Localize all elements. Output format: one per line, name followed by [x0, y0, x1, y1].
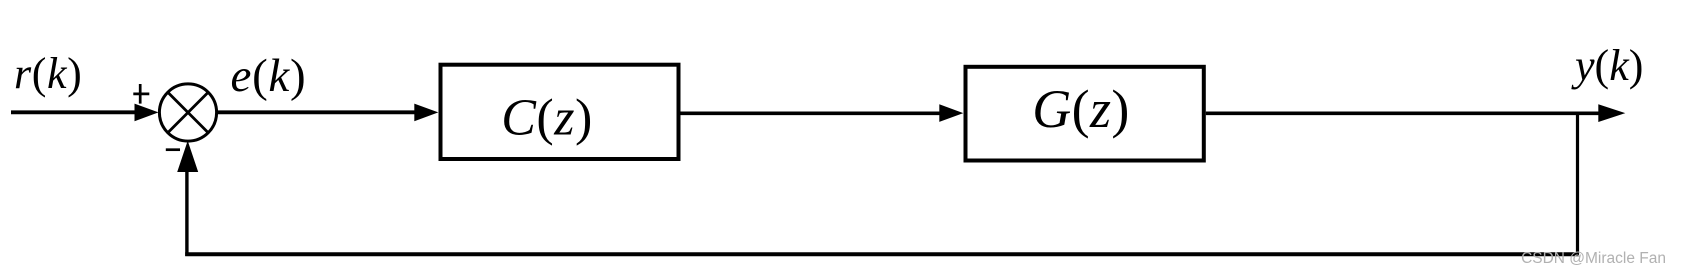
wire C(z) to G(z) [681, 112, 942, 116]
summing junction circle [159, 84, 216, 141]
plus sign [133, 84, 149, 104]
arrowhead up into summing junction [177, 141, 198, 172]
svg-text:y(k): y(k) [1571, 41, 1643, 90]
feedback wire down from output node [1576, 113, 1579, 254]
arrowhead into G(z) [939, 104, 963, 122]
svg-text:G(z): G(z) [1032, 79, 1130, 139]
wire summing junction to C(z) [217, 110, 416, 114]
svg-text:CSDN @Miracle Fan: CSDN @Miracle Fan [1521, 250, 1666, 267]
wire input to summing junction [11, 110, 136, 114]
feedback wire up to summing junction [185, 170, 188, 256]
arrowhead at output [1598, 104, 1625, 122]
feedback wire bottom [185, 252, 1579, 256]
svg-text:r(k): r(k) [14, 49, 82, 98]
cross X inside summing junction [168, 92, 208, 132]
arrowhead into C(z) [414, 104, 438, 122]
block G(z) [966, 67, 1204, 161]
arrowhead into summing junction [135, 104, 159, 122]
wire G(z) to output [1206, 112, 1600, 116]
block C(z) [441, 65, 679, 159]
svg-text:C(z): C(z) [501, 90, 593, 147]
svg-text:e(k): e(k) [231, 50, 307, 102]
minus sign [166, 148, 180, 151]
